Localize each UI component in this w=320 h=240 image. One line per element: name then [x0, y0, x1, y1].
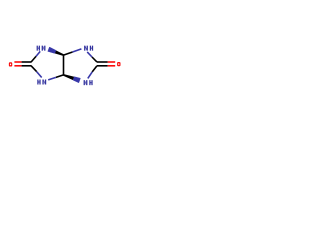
double bond C5=O right	[97, 61, 108, 63]
bond N1-C2	[36, 51, 40, 56]
double bond C2=O left	[14, 61, 21, 63]
bond N6-C5	[88, 72, 92, 79]
atom N3 label HN	[37, 80, 38, 85]
atom N4 label NH	[84, 46, 85, 51]
wedge bond C3a-N1	[55, 50, 64, 56]
atom N1 label HN	[37, 46, 38, 51]
bond C3a-C6a (ring fusion)	[63, 55, 65, 75]
bond C6a-N3	[56, 75, 64, 78]
bond N3-C2	[37, 72, 42, 78]
atom O left	[9, 62, 12, 66]
molecule: glycoluril 2D structure	[0, 0, 130, 130]
atom N6 label NH	[84, 80, 85, 85]
bond N4-C5	[87, 52, 92, 57]
bond C3a-N4	[64, 52, 73, 55]
atom O right	[117, 62, 120, 66]
wedge bond C6a-N6	[63, 74, 74, 80]
